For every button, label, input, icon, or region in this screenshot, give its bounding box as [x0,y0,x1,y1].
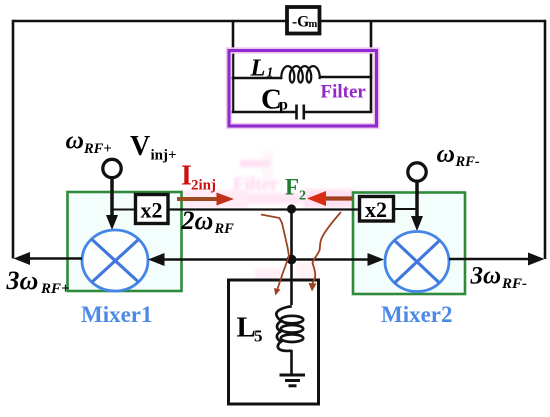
svg-text:1: 1 [267,65,274,80]
wire port2 down arrow [415,181,419,219]
capacitor Cp [297,105,304,120]
svg-text:2: 2 [299,189,306,204]
annotation arrow A (left squiggle) [261,215,289,290]
wire L1 branch [232,77,282,79]
svg-text:L: L [250,55,266,82]
inductor L5 [276,306,292,351]
svg-text:5: 5 [254,327,263,346]
svg-text:F: F [285,175,299,200]
svg-text:RF+: RF+ [83,141,112,157]
ghost artifact pink band behind I2inj arrow [178,190,248,208]
wire right rail [544,20,547,259]
current arrow left near F2 [325,196,353,200]
svg-text:x2: x2 [141,198,163,223]
wire center vertical [290,209,293,305]
svg-text:p: p [279,97,288,114]
svg-text:Filter: Filter [321,82,367,103]
wire port1 down arrow [110,177,114,217]
svg-text:RF-: RF- [455,154,480,170]
ghost artifact echo Filter text [233,160,302,204]
ground [280,374,306,377]
wire left rail [12,20,15,259]
doubler x2 box 2 [360,197,394,222]
wire Cp branch [232,111,373,113]
ghost artifact pink band behind left red arrow [303,189,355,208]
svg-text:Mixer1: Mixer1 [81,302,153,327]
svg-text:RF: RF [214,221,235,237]
filter box [229,51,377,127]
wire to ground [290,350,293,375]
svg-text:-G: -G [292,13,309,30]
inductor L1 [281,66,319,82]
svg-text:V: V [130,131,150,162]
svg-text:RF+: RF+ [40,281,70,297]
node F2 dot [287,204,296,213]
svg-text:L: L [237,312,256,344]
svg-text:x2: x2 [365,197,387,222]
node dot lower [287,255,297,265]
wire center rail [163,258,369,261]
mixer box Mixer2 [353,193,465,295]
wire top rail [13,20,545,23]
wire x2 input 2 [394,208,418,210]
svg-text:3ω: 3ω [470,263,502,290]
wire mixer2 output right [449,258,530,261]
current arrow I2inj right [177,197,217,201]
port P2 circle [408,163,426,181]
wire 2wRF rail [168,208,360,210]
svg-text:2ω: 2ω [181,206,214,235]
port P1 circle [103,159,121,177]
wire filter right bus [370,21,373,112]
svg-text:ω: ω [66,126,84,155]
mixer symbol 1 [82,230,148,291]
svg-text:m: m [309,19,318,30]
mixer symbol 2 [385,232,449,292]
ghost artifact pink patches near L5 top [255,268,281,294]
svg-text:inj+: inj+ [151,148,177,164]
tank box L5 [229,280,319,404]
svg-text:ω: ω [437,139,455,168]
wire mixer1 output left [28,257,82,260]
mixer box Mixer1 [68,192,182,291]
svg-text:RF-: RF- [501,276,527,292]
annotation arrow B (right squiggle) [312,212,341,285]
svg-text:Mixer2: Mixer2 [381,302,453,327]
svg-text:3ω: 3ω [6,266,39,295]
doubler x2 box 1 [136,195,169,224]
svg-text:2inj: 2inj [191,178,216,194]
wire filter left bus [232,21,235,112]
op-amp -Gm block [287,7,320,34]
wire x2 input 1 [112,209,136,211]
